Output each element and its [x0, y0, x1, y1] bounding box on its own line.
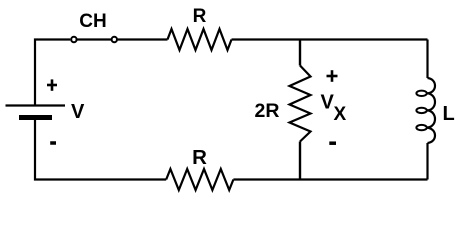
svg-text:2R: 2R: [255, 100, 280, 122]
svg-text:CH: CH: [79, 11, 106, 32]
svg-text:R: R: [192, 146, 207, 169]
svg-text:R: R: [193, 6, 207, 27]
svg-text:V: V: [321, 92, 335, 114]
svg-text:X: X: [334, 104, 347, 125]
svg-text:V: V: [71, 101, 85, 123]
svg-text:L: L: [443, 103, 455, 125]
